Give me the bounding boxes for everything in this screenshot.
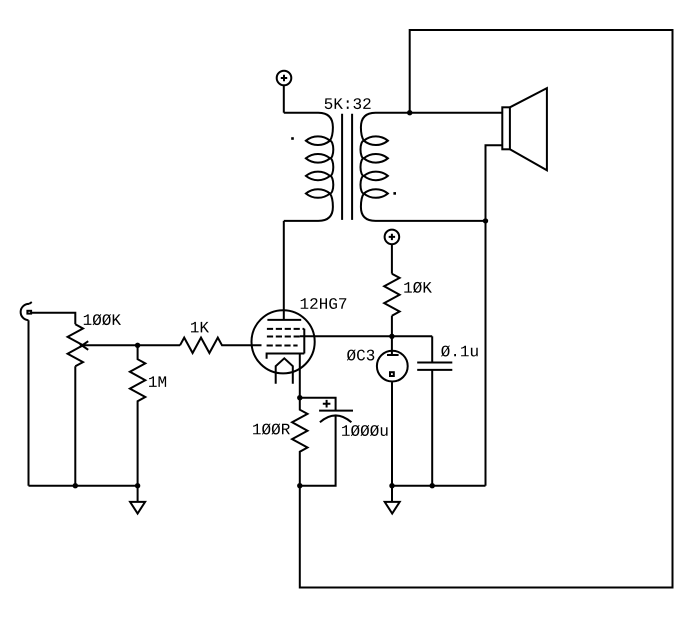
node speaker return junction <box>483 218 488 223</box>
transformer T1 core <box>342 114 352 220</box>
tube V2 0C3 envelope <box>377 351 408 382</box>
label 1M <box>149 376 166 387</box>
node wiper/1M junction <box>135 343 140 348</box>
node secondary top junction <box>407 110 412 115</box>
B+ supply terminal (plate) <box>277 71 292 86</box>
wire feedback loop (top, right side, bottom) <box>300 30 673 588</box>
wire cathode down <box>299 354 301 398</box>
wire 0C3 to ground bus <box>391 382 393 485</box>
transformer T1 secondary phase dot <box>393 192 396 195</box>
wire left ground bus <box>29 485 138 487</box>
resistor 1K <box>180 338 262 353</box>
wire wiper to grid <box>81 344 180 346</box>
wire junction down to ground bus <box>485 221 487 486</box>
wire screen grid to 10K/0C3 <box>300 335 432 337</box>
wire secondary top to speaker <box>410 112 502 114</box>
resistor 10K <box>384 274 399 316</box>
B+ supply terminal (screen) <box>385 230 400 245</box>
ground (right) <box>385 486 400 514</box>
label 0.1u <box>441 345 478 356</box>
tube V1 heater <box>276 358 293 383</box>
potentiometer wiper arrow <box>80 341 88 350</box>
tube V2 anode <box>387 354 399 356</box>
resistor 100R <box>292 398 307 486</box>
tube V1 grid g1 (control) <box>267 345 298 347</box>
wire speaker bottom terminal <box>486 145 503 221</box>
label 100R <box>253 423 290 434</box>
capacitor 1000u top plate <box>319 410 353 412</box>
wire transformer primary bottom to tube plate <box>283 221 285 320</box>
node 1M ground junction <box>135 483 140 488</box>
wire supply2 to 10K <box>391 245 393 274</box>
wire supply1 to transformer primary <box>283 86 285 113</box>
wire jack sleeve to ground bus <box>28 320 30 486</box>
capacitor 1000u bottom plate (curved) <box>320 415 352 422</box>
input jack J1 <box>21 302 32 320</box>
capacitor 1000u bottom lead <box>300 416 336 486</box>
capacitor 0.1u top lead <box>431 336 433 362</box>
tube V1 cathode <box>267 354 305 359</box>
node 0C3 ground junction <box>389 483 394 488</box>
wire jack to pot <box>32 313 76 325</box>
node pot ground junction <box>73 483 78 488</box>
transformer T1 primary winding <box>284 113 334 221</box>
ground (left) <box>130 486 145 514</box>
capacitor 0.1u plates <box>417 363 452 370</box>
node 0.1u ground junction <box>430 483 435 488</box>
speaker LS1 cone <box>510 88 547 170</box>
speaker LS1 driver <box>502 107 510 149</box>
tube V1 plate <box>267 319 301 321</box>
node screen junction <box>389 334 394 339</box>
wire 10K to 0C3 <box>391 316 393 355</box>
tube V2 cathode (square) <box>390 372 394 376</box>
tube V1 grid g2 (screen) <box>267 336 300 338</box>
resistor 1M <box>130 345 145 485</box>
capacitor 0.1u bottom lead <box>431 370 433 486</box>
label 12HG7 <box>301 298 347 309</box>
label 1000u <box>342 425 387 436</box>
transformer T1 secondary winding <box>361 113 411 221</box>
transformer T1 primary phase dot <box>291 137 294 140</box>
capacitor 1000u plus sign <box>323 400 331 408</box>
node cathode bottom junction <box>297 483 302 488</box>
tube V1 12HG7 envelope <box>252 310 315 373</box>
label 0C3 <box>347 349 374 360</box>
wire pot bottom to ground bus <box>74 366 76 485</box>
tube V1 grid g3 (suppressor) <box>267 328 304 330</box>
node cathode junction <box>297 395 302 400</box>
potentiometer 100K <box>68 324 83 366</box>
label 1K <box>191 322 209 333</box>
label 10K <box>404 282 432 293</box>
tube V1 g3 tie to cathode <box>303 329 305 354</box>
capacitor 1000u top lead <box>300 398 336 411</box>
wire secondary bottom to junction <box>410 220 486 222</box>
wire right ground bus <box>392 485 486 487</box>
label 5K:32 <box>325 98 371 109</box>
label 100K <box>84 314 121 325</box>
